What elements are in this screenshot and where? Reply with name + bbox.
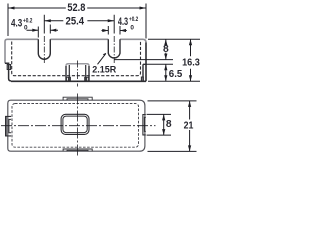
center square outer [61,114,89,134]
boss foot left [66,77,70,81]
ext step [146,63,173,65]
2.15R leader line [98,54,106,65]
center square inner [63,116,87,133]
vertical center line [76,94,78,158]
dim 8 (lower) arrowheads [162,114,165,135]
dim 8 arrowheads [164,39,167,59]
2.15R leader arrowhead [103,53,106,56]
horizontal center line [1,125,156,127]
dim 52.8 extension line left [7,4,9,37]
outer body [8,100,145,151]
top tab inner [67,99,88,101]
center boss top (light grey) [66,64,89,66]
slot 2 [108,39,120,58]
left clip thick edge [5,116,7,135]
ext 21 bottom [148,150,197,152]
dim 21 line [189,101,191,151]
bottom tab outer [63,149,92,151]
right-side dims of upper view [114,39,200,81]
dim 16.3 line [190,39,192,81]
left step + lower left edge [5,63,11,81]
dim 16.3 arrowheads [189,39,192,81]
left step foot detail [7,65,10,70]
svg-text:21: 21 [184,120,194,131]
svg-text:+0.2: +0.2 [129,16,139,23]
ext 8 bottom [147,134,171,136]
body center line [76,61,78,87]
left clip inner bracket [9,119,11,132]
svg-text:0: 0 [130,24,134,31]
svg-text:6.5: 6.5 [169,69,183,80]
svg-text:52.8: 52.8 [67,2,85,14]
slot 1 [38,39,50,59]
dim 52.8 arrowheads [8,7,146,10]
dim 25.4 line [44,20,114,22]
bottom edge [11,80,146,82]
slot 2 center line [113,36,115,64]
dim 52.8 line [8,7,146,9]
dim 4.3 left arrows [27,29,59,31]
right edge [145,43,147,82]
dim 4.3 right: slot edge extension lines [108,26,120,35]
boss inner walls [69,65,85,81]
ext top [148,38,200,40]
body outline: top edge (grey) [5,36,146,87]
center boss sides [66,66,89,81]
dim 25.4 arrowheads [44,19,114,22]
right clip inner bracket [144,117,145,131]
dim 4.3 right arrows [102,30,127,32]
dim 21 arrowheads [188,101,191,151]
ext bottom [148,80,200,82]
svg-text:0: 0 [24,24,28,31]
dim 25.4 extension lines [44,15,114,34]
left lip edge (grey) [4,42,6,64]
svg-text:16.3: 16.3 [182,58,200,69]
top tab outer [63,97,92,100]
svg-text:2.15R: 2.15R [92,64,116,75]
dim 6.5 line [165,64,167,81]
right bottom foot detail [141,77,143,81]
bottom tab inner [67,149,88,152]
hidden dashed outline [12,42,141,76]
svg-text:4.3: 4.3 [11,18,22,30]
svg-text:8: 8 [163,44,169,55]
dim 8 line [163,114,165,135]
dim 4.3 left: slot edge extension lines [38,25,50,38]
svg-text:25.4: 25.4 [66,16,85,28]
dim 8 line [165,39,167,59]
right clip outer bracket [143,115,146,135]
svg-text:8: 8 [166,119,172,130]
dim 6.5 arrowheads [164,64,167,81]
inner dashed outline [12,104,139,148]
slot 1 center line [43,36,45,64]
lower-view dims [147,101,197,151]
boss foot right [85,77,89,81]
ext slot bottom [114,59,173,61]
ext 21 top [148,100,197,102]
svg-text:4.3: 4.3 [118,16,128,28]
dim 52.8 extension line right [145,4,147,39]
ext 8 top [147,113,171,115]
left clip outer bracket [6,116,12,135]
right inner step [143,64,146,81]
